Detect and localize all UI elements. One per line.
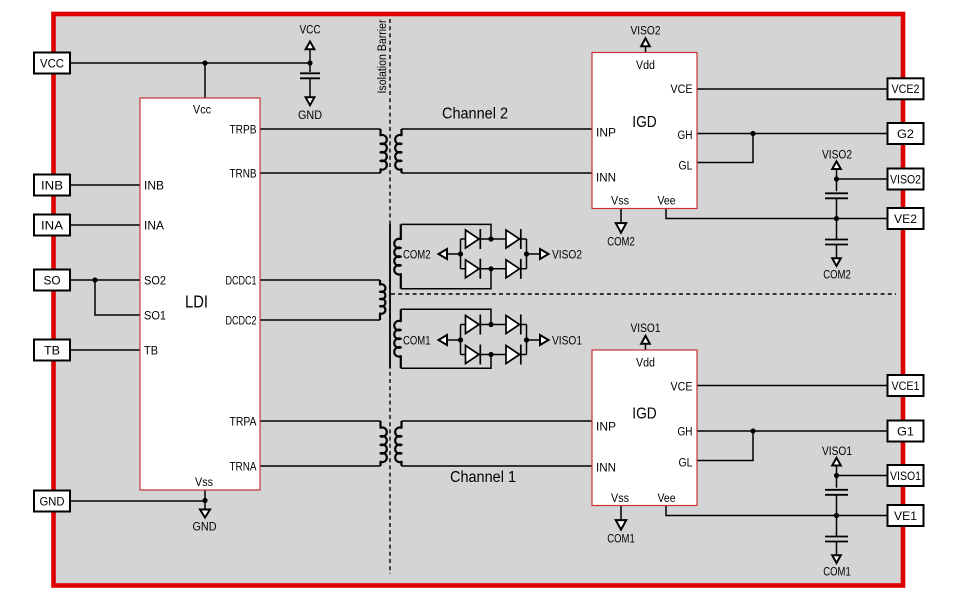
svg-text:Vcc: Vcc bbox=[193, 105, 211, 117]
svg-text:VISO2: VISO2 bbox=[890, 172, 921, 186]
svg-text:TRPB: TRPB bbox=[230, 125, 257, 137]
svg-text:INB: INB bbox=[41, 178, 63, 192]
svg-text:INA: INA bbox=[144, 221, 164, 233]
svg-text:TRNB: TRNB bbox=[230, 169, 257, 181]
svg-text:IGD: IGD bbox=[632, 406, 657, 423]
svg-text:DCDC2: DCDC2 bbox=[226, 316, 257, 328]
svg-text:VISO2: VISO2 bbox=[552, 249, 582, 261]
svg-text:GND: GND bbox=[40, 494, 65, 508]
svg-text:IGD: IGD bbox=[632, 114, 657, 131]
svg-text:COM1: COM1 bbox=[403, 335, 431, 347]
svg-text:SO1: SO1 bbox=[144, 311, 166, 323]
svg-text:GL: GL bbox=[679, 458, 694, 470]
svg-text:TB: TB bbox=[144, 346, 158, 358]
svg-text:DCDC1: DCDC1 bbox=[226, 276, 257, 288]
svg-text:Channel 1: Channel 1 bbox=[450, 469, 516, 486]
svg-text:VCC: VCC bbox=[40, 56, 64, 70]
svg-text:VCE1: VCE1 bbox=[892, 379, 920, 393]
svg-text:Vdd: Vdd bbox=[636, 358, 655, 370]
svg-text:COM2: COM2 bbox=[607, 237, 635, 249]
svg-text:Vdd: Vdd bbox=[636, 60, 655, 72]
svg-text:SO: SO bbox=[44, 273, 61, 287]
svg-text:VE1: VE1 bbox=[894, 509, 917, 523]
svg-text:G1: G1 bbox=[897, 424, 914, 438]
svg-text:COM1: COM1 bbox=[607, 534, 635, 546]
svg-text:COM2: COM2 bbox=[823, 270, 851, 282]
svg-text:COM1: COM1 bbox=[823, 567, 851, 579]
svg-text:Isolation Barrier: Isolation Barrier bbox=[377, 19, 389, 93]
svg-text:LDI: LDI bbox=[185, 292, 208, 312]
svg-text:TRNA: TRNA bbox=[230, 462, 257, 474]
svg-text:INN: INN bbox=[596, 463, 616, 475]
svg-text:GL: GL bbox=[679, 161, 694, 173]
svg-text:Vee: Vee bbox=[658, 493, 676, 505]
svg-text:VE2: VE2 bbox=[894, 212, 917, 226]
svg-text:COM2: COM2 bbox=[403, 249, 431, 261]
svg-text:Vss: Vss bbox=[195, 477, 213, 489]
svg-text:Vss: Vss bbox=[611, 493, 629, 505]
svg-text:G2: G2 bbox=[897, 127, 914, 141]
svg-text:INP: INP bbox=[596, 422, 616, 434]
svg-text:VISO1: VISO1 bbox=[552, 335, 582, 347]
svg-text:VISO2: VISO2 bbox=[822, 150, 852, 162]
svg-text:VCC: VCC bbox=[300, 25, 321, 37]
svg-text:VISO1: VISO1 bbox=[631, 323, 661, 335]
svg-text:VISO1: VISO1 bbox=[822, 446, 852, 458]
svg-text:SO2: SO2 bbox=[144, 276, 166, 288]
svg-text:INN: INN bbox=[596, 173, 616, 185]
svg-text:Vee: Vee bbox=[658, 195, 676, 207]
svg-text:GND: GND bbox=[298, 110, 322, 122]
svg-text:GND: GND bbox=[193, 522, 217, 534]
svg-text:INA: INA bbox=[41, 218, 63, 232]
svg-text:INP: INP bbox=[596, 128, 616, 140]
svg-text:VISO1: VISO1 bbox=[890, 469, 921, 483]
svg-text:VCE2: VCE2 bbox=[892, 82, 920, 96]
svg-text:INB: INB bbox=[144, 181, 164, 193]
svg-text:VCE: VCE bbox=[671, 382, 693, 394]
svg-text:GH: GH bbox=[678, 427, 693, 439]
svg-text:GH: GH bbox=[678, 130, 693, 142]
svg-text:Channel 2: Channel 2 bbox=[442, 106, 508, 123]
svg-text:Vss: Vss bbox=[611, 195, 629, 207]
svg-text:VISO2: VISO2 bbox=[631, 26, 661, 38]
svg-text:VCE: VCE bbox=[671, 84, 693, 96]
svg-text:TRPA: TRPA bbox=[230, 417, 257, 429]
svg-text:TB: TB bbox=[44, 343, 60, 357]
